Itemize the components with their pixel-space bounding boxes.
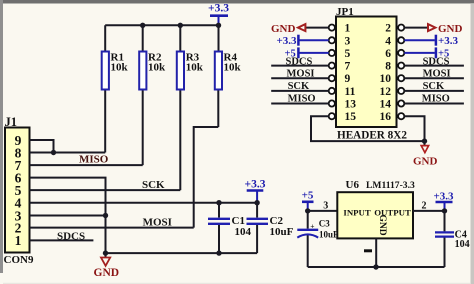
wire JP1 pin9 MOSI left xyxy=(271,77,329,79)
svg-text:INPUT: INPUT xyxy=(343,208,371,218)
resistor R1 xyxy=(102,25,129,152)
svg-text:10uF: 10uF xyxy=(319,230,339,240)
svg-text:MISO: MISO xyxy=(79,154,109,166)
capacitor C1 xyxy=(208,203,252,253)
svg-text:+: + xyxy=(310,221,314,230)
svg-text:+3.3: +3.3 xyxy=(438,35,459,47)
node pin4-C1 xyxy=(216,200,221,205)
svg-text:3: 3 xyxy=(345,35,351,47)
JP1 pin circles left xyxy=(329,25,335,120)
connector J1 CON9 xyxy=(4,115,34,266)
svg-text:10k: 10k xyxy=(148,62,166,74)
svg-text:SCK: SCK xyxy=(142,179,165,191)
svg-text:MISO: MISO xyxy=(288,94,316,105)
svg-text:SDCS: SDCS xyxy=(286,56,313,67)
wire J1 pin3 xyxy=(30,215,106,217)
svg-text:MOSI: MOSI xyxy=(143,216,172,228)
svg-text:5: 5 xyxy=(345,48,351,60)
resistor R3 xyxy=(177,25,204,190)
svg-text:10k: 10k xyxy=(186,62,204,74)
svg-text:9: 9 xyxy=(345,73,351,85)
svg-text:LM1117-3.3: LM1117-3.3 xyxy=(366,180,415,191)
power +3.3 JP1 right xyxy=(404,35,458,48)
ground symbol GND (left) xyxy=(94,253,120,279)
node gnd bus C1 xyxy=(216,250,221,255)
wire +3.3 rail over resistors xyxy=(105,24,218,26)
node rail-R3 xyxy=(178,23,183,28)
wire J1 pin7 to R2 xyxy=(30,164,143,166)
frame borders (decorative) xyxy=(0,0,474,4)
svg-text:GND: GND xyxy=(438,23,463,35)
wire ground bus bottom xyxy=(106,252,258,254)
svg-text:10k: 10k xyxy=(224,62,242,74)
svg-text:1: 1 xyxy=(345,23,351,35)
power +3.3 top xyxy=(208,3,229,26)
svg-text:MOSI: MOSI xyxy=(423,69,451,80)
svg-text:MOSI: MOSI xyxy=(287,69,315,80)
svg-text:3: 3 xyxy=(323,200,328,211)
svg-text:15: 15 xyxy=(345,111,357,123)
wire +5 to U6 pin3 xyxy=(308,210,338,212)
power GND arrow right xyxy=(428,23,463,35)
capacitor C4 xyxy=(435,211,470,267)
svg-text:SCK: SCK xyxy=(288,81,310,92)
node +3.3 C4 xyxy=(442,208,447,213)
svg-text:SDCS: SDCS xyxy=(57,231,85,243)
svg-text:+3.3: +3.3 xyxy=(277,35,298,47)
svg-text:12: 12 xyxy=(380,86,392,98)
svg-text:10: 10 xyxy=(380,73,392,85)
svg-text:C3: C3 xyxy=(319,218,330,228)
svg-text:11: 11 xyxy=(345,86,356,98)
svg-text:13: 13 xyxy=(345,99,357,111)
power +5 JP1 right xyxy=(404,47,449,59)
node JP1 gnd xyxy=(422,138,427,143)
svg-text:CON9: CON9 xyxy=(4,254,34,266)
regulator U6 LM1117-3.3 xyxy=(337,179,415,239)
svg-text:GND: GND xyxy=(413,155,438,167)
power +5 (U6 input) xyxy=(302,190,314,211)
capacitor C3 xyxy=(297,211,339,267)
svg-text:SCK: SCK xyxy=(423,81,445,92)
svg-text:MISO: MISO xyxy=(422,94,450,105)
wire JP1 pin7 SDCS left xyxy=(271,65,329,67)
svg-text:+3.3: +3.3 xyxy=(245,179,266,191)
svg-text:104: 104 xyxy=(455,239,470,250)
power GND arrow left xyxy=(271,23,305,35)
svg-text:7: 7 xyxy=(345,61,351,73)
connector JP1 HEADER 8X2 xyxy=(336,6,407,142)
resistor R2 xyxy=(139,25,166,165)
wire J1 pin2 MOSI xyxy=(30,227,194,229)
capacitor C2 xyxy=(247,203,294,253)
svg-text:GND: GND xyxy=(94,267,120,279)
svg-text:+5: +5 xyxy=(302,190,314,202)
power +3.3 (U6 output) xyxy=(433,191,454,211)
wire MOSI net R4 jog xyxy=(194,127,219,228)
wire JP1 pin8 SDCS right xyxy=(404,65,464,67)
wire U6 ground bus xyxy=(308,266,445,268)
svg-text:2: 2 xyxy=(385,23,391,35)
node pin9-pin8 join xyxy=(51,150,56,155)
wire U6 gnd pin xyxy=(375,238,377,267)
wire J1 pin1 SDCS xyxy=(30,239,94,241)
svg-text:HEADER 8X2: HEADER 8X2 xyxy=(337,130,407,142)
wire JP1 pin11 SCK left xyxy=(271,90,329,92)
wire JP1 pin14 MISO right xyxy=(404,103,464,105)
ground symbol GND (JP1) xyxy=(413,141,438,167)
svg-text:GND: GND xyxy=(271,23,296,35)
svg-text:GND: GND xyxy=(377,215,387,236)
wire JP1 pin15 to gnd xyxy=(311,116,425,141)
svg-text:1: 1 xyxy=(15,233,22,248)
svg-text:SDCS: SDCS xyxy=(423,56,450,67)
resistor R4 xyxy=(215,25,242,127)
node rail-R2 xyxy=(140,23,145,28)
wire JP1 pin16 to gnd xyxy=(404,116,424,141)
svg-text:2: 2 xyxy=(422,201,427,212)
pin 1 dash xyxy=(364,249,372,252)
wire JP1 pin10 MOSI right xyxy=(404,77,464,79)
svg-text:+3.3: +3.3 xyxy=(208,3,229,15)
svg-text:4: 4 xyxy=(385,35,391,47)
wire JP1 pin13 MISO left xyxy=(271,103,329,105)
wire J1 pin9 xyxy=(30,140,54,153)
svg-text:8: 8 xyxy=(385,61,391,73)
node pin3-gnd xyxy=(103,213,108,218)
svg-text:16: 16 xyxy=(380,111,392,123)
wire U6 pin2 output xyxy=(413,210,445,212)
svg-text:104: 104 xyxy=(235,226,252,238)
node gnd bus left xyxy=(103,250,108,255)
power +5 JP1 left xyxy=(285,47,329,59)
power +3.3 JP1 left xyxy=(277,35,329,48)
svg-text:6: 6 xyxy=(385,48,391,60)
svg-text:10uF: 10uF xyxy=(270,226,294,238)
node rail-+3.3-R4 xyxy=(216,23,221,28)
wire JP1 pin12 SCK right xyxy=(404,90,464,92)
node pin4-C2-+3.3 xyxy=(254,200,259,205)
JP1 pin circles right xyxy=(398,25,404,120)
node U6 gnd bus xyxy=(373,264,378,269)
svg-text:14: 14 xyxy=(380,99,392,111)
wire J1 pin6 GND drop xyxy=(30,178,106,254)
svg-text:U6: U6 xyxy=(346,179,360,191)
node +5 C3 xyxy=(305,208,310,213)
wire JP1 pin2 GND right xyxy=(404,27,428,29)
svg-text:10k: 10k xyxy=(111,62,129,74)
power +3.3 mid xyxy=(245,179,266,203)
wire J1 pin8 to R1 xyxy=(30,152,106,154)
wire J1 pin5 to R3 SCK xyxy=(30,189,181,191)
wire J1 pin4 to C1 C2 xyxy=(30,202,258,204)
wire JP1 pin1 GND left xyxy=(306,27,329,29)
